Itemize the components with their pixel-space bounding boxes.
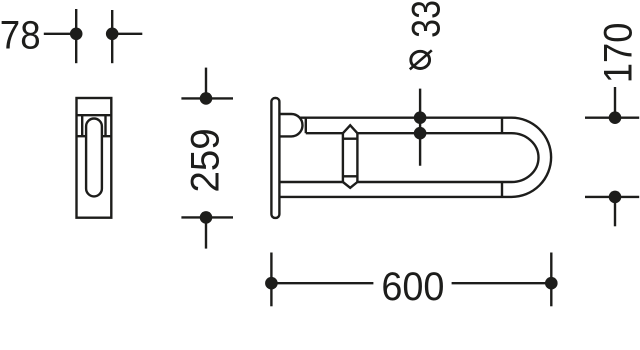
svg-text:170: 170: [596, 23, 640, 84]
top tube bottom line left: [306, 132, 343, 134]
dim 170 dot top: [609, 111, 622, 124]
dim 78 dot 1: [70, 28, 83, 41]
side view plate bottom line: [77, 114, 112, 116]
side view bracket cap right: [102, 135, 111, 137]
dim dia33 dot bottom: [414, 127, 427, 140]
u-bend joint bottom: [501, 182, 503, 197]
side view outer body: [77, 98, 112, 218]
bottom tube bottom line: [279, 196, 511, 198]
connector left side: [342, 133, 344, 182]
dim 78 line right: [112, 33, 142, 35]
dim 170 line bottom: [614, 197, 616, 226]
dim 78 tick 1: [75, 9, 77, 63]
bottom tube top line right: [357, 181, 511, 183]
dim dia33 dot top: [414, 111, 427, 124]
label dia symbol slash: [410, 50, 432, 69]
dim 600 line left: [271, 282, 373, 284]
side view bracket cap left: [77, 135, 87, 137]
dim 170 tick top: [585, 116, 639, 118]
top tube bottom line right: [357, 132, 511, 134]
dim 259 tick bottom: [181, 216, 233, 218]
u-bend inner: [512, 133, 539, 182]
dim 259 tick top: [181, 97, 233, 99]
dim 259 line top: [205, 68, 207, 99]
dim 600 line right: [452, 282, 552, 284]
svg-text:600: 600: [381, 265, 444, 309]
svg-text:259: 259: [183, 128, 228, 192]
wall plate: [271, 98, 279, 218]
connector right side: [356, 133, 358, 182]
dim 170 line top: [614, 87, 616, 118]
u-bend joint top: [501, 118, 503, 134]
side view bracket right wall: [104, 115, 106, 136]
svg-text:78: 78: [0, 13, 41, 58]
dim 600 tick left: [270, 253, 272, 307]
side view bracket left wall: [81, 115, 83, 136]
hinge joint line: [305, 118, 307, 134]
dim 259 dot bottom: [200, 211, 213, 224]
dim 170 tick bottom: [585, 196, 639, 198]
dim 600 dot right: [545, 277, 558, 290]
dim 170 dot bottom: [609, 191, 622, 204]
dim 78 tick 2: [111, 10, 113, 63]
dim 600 dot left: [265, 277, 278, 290]
dim 259 dot top: [200, 92, 213, 105]
dim 259 line bottom: [205, 217, 207, 248]
bottom tube top line left: [279, 181, 343, 183]
u-bend outer: [512, 118, 552, 197]
side view tube slot: [86, 119, 102, 197]
connector roof: [343, 125, 358, 133]
hinge: [279, 114, 302, 136]
label dia symbol circle: [411, 51, 430, 68]
top tube top line: [300, 116, 512, 118]
dim 600 tick right: [550, 253, 552, 307]
dim 78 dot 2: [106, 28, 119, 41]
connector top cap line: [343, 137, 358, 139]
dim 78 line left: [44, 33, 76, 35]
connector v tip: [343, 182, 358, 188]
dim dia33 line: [419, 89, 421, 166]
svg-text:33: 33: [403, 0, 448, 38]
connector bottom cap line: [343, 175, 358, 177]
